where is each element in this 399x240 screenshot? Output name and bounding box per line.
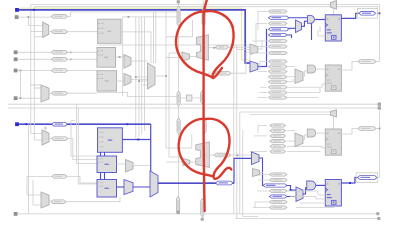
wire label L12 out <box>66 197 120 202</box>
wire port P3 run <box>18 51 98 53</box>
wire tall mux M5 out <box>155 75 166 77</box>
wire mux M22 out blue <box>303 188 307 194</box>
net label L7 <box>216 45 229 49</box>
wire blue riser x150 <box>150 124 152 171</box>
wire AND G4 out blue <box>316 184 326 186</box>
net label L10 <box>52 137 68 141</box>
RAM block B5 (highlighted) <box>97 156 117 173</box>
junction L13 out <box>237 154 239 156</box>
wire bottom bus 2 <box>235 218 377 220</box>
wire row2 to AND blue <box>289 17 308 19</box>
net label L14 (highlighted) <box>216 181 234 185</box>
net label stack2 row3 <box>269 70 288 73</box>
net label stack1 row4 <box>269 28 290 31</box>
wire below-B1 wrap <box>98 17 250 96</box>
junction B2 out <box>119 56 121 58</box>
wire label L13 out <box>231 154 252 156</box>
net square S2 <box>201 218 204 221</box>
net label stack2 row2 <box>269 65 288 68</box>
wire block B6 out blue <box>117 186 125 188</box>
wire blue net bottom label <box>204 182 235 184</box>
AND gate G3 <box>307 129 315 137</box>
wire blue net bottom-left <box>19 123 151 125</box>
wire O2 to margin <box>376 61 379 63</box>
mux M20 (highlighted) <box>252 152 260 165</box>
wire vmux M12 out <box>333 117 335 129</box>
wire stack3 left stubs <box>250 126 267 152</box>
junction branch 2 <box>138 80 140 82</box>
wire vmux M10 out <box>333 9 335 15</box>
bus end square 3 <box>376 212 379 215</box>
net label stack3 row3 <box>270 134 286 137</box>
wire B4-B5 connectors blue <box>101 152 105 156</box>
wire x76 vertical <box>76 104 97 163</box>
tall mux M5 <box>148 63 156 89</box>
net label L11 <box>52 175 67 179</box>
junction blue bl 1 <box>25 123 27 125</box>
wire label L10 out <box>68 139 97 160</box>
wire B3 bottom wrap <box>97 92 177 96</box>
net label L13 <box>214 153 231 157</box>
vertical mux M10 <box>331 1 337 10</box>
wire mux M7 out <box>258 40 262 49</box>
wire U2 top input <box>166 134 192 148</box>
input port P2 <box>15 15 19 19</box>
wire O1 to margin <box>376 12 380 14</box>
wire AND G2 out <box>316 68 325 70</box>
wire x78 vertical <box>78 108 97 184</box>
net label stack1 row2 <box>269 16 290 19</box>
wire poly U2 out <box>209 154 214 156</box>
net label stack2 row7 <box>269 91 288 94</box>
red annotation vertical stroke <box>204 0 207 211</box>
wire mux M2 out <box>49 92 52 94</box>
mux U2 (notched) <box>196 142 210 168</box>
mux M14 <box>42 130 49 145</box>
wire AND G3 out <box>316 132 325 134</box>
wire blue riser x234 <box>234 158 252 183</box>
input port P4 <box>14 57 18 61</box>
selection box around O1 <box>358 9 378 19</box>
junction port P5 <box>20 70 22 72</box>
AND gate G1 <box>308 16 315 24</box>
output label O1 <box>359 11 376 15</box>
wire label L7 out <box>229 46 251 48</box>
AND gate G4 <box>307 181 316 190</box>
net label stack3 row6 <box>270 150 286 153</box>
RAM block B3 <box>97 71 117 91</box>
mux M7 <box>250 44 258 55</box>
net label L5 <box>52 69 68 73</box>
wire poly U1 out <box>208 46 215 48</box>
flip-flop FF4 <box>325 180 341 207</box>
junction row3 mux <box>290 189 292 191</box>
output label O4 <box>358 176 378 180</box>
net label stack4 row1 <box>270 173 288 176</box>
junction branch 1 <box>135 76 137 78</box>
wire mux M2 inputs <box>31 85 41 88</box>
wire bottom bus 1 <box>18 213 377 215</box>
wire mux M13 out <box>303 135 307 140</box>
vertical net label V4 <box>201 91 204 104</box>
wire top bus A <box>31 5 380 62</box>
wire M6 inputs <box>166 53 182 58</box>
net label L12 <box>51 200 66 204</box>
wire FF3 out <box>341 129 358 135</box>
flip-flop FF3 <box>325 129 341 155</box>
wire label L2 out <box>67 31 97 33</box>
net label L8 <box>215 71 231 75</box>
wire small box SB1 stubs <box>180 97 201 99</box>
wire x71 vertical <box>71 121 97 156</box>
pin number mark 1 <box>70 51 71 53</box>
RAM block B2 <box>97 48 116 68</box>
junction blue net bottom <box>219 182 221 184</box>
junction O1 margin <box>378 12 380 14</box>
wire label L1 out <box>67 12 178 17</box>
wire mux M8 out blue <box>258 29 267 66</box>
wire label L11 run <box>27 176 97 183</box>
wire mid verticals <box>234 25 258 219</box>
wire B5-B6 connectors blue <box>101 173 105 180</box>
vertical net label V3 <box>177 91 180 106</box>
bus end square 4 <box>377 217 380 220</box>
wire FF2 out <box>341 62 358 71</box>
net label stack2 row8 <box>269 96 288 99</box>
net label stack4 row4 <box>270 189 288 192</box>
wire tall mux M18 out blue <box>158 182 234 184</box>
wire mux M20 out blue <box>259 158 263 186</box>
net label L9 (highlighted) <box>52 122 68 126</box>
small mux M19 <box>183 159 190 166</box>
wire mux M1 input low <box>34 36 42 38</box>
wire x169 vertical <box>168 53 170 157</box>
yellow highlighted net <box>19 8 250 60</box>
pin number mark 2 <box>70 58 71 60</box>
wire blue net top <box>19 10 250 63</box>
wire cross verticals left-center <box>136 17 145 140</box>
input port P3 <box>14 50 18 54</box>
input port blue top <box>15 8 19 12</box>
wire port P6 run <box>18 97 42 99</box>
mux M13 <box>295 133 303 147</box>
wire left verts into bottom <box>28 85 34 214</box>
net label stack2 row5 <box>269 80 288 83</box>
wire mux M15 inputs <box>27 195 41 205</box>
wire center vertical x203 <box>202 0 204 218</box>
wire x20 vertical <box>19 71 21 99</box>
wire mux M21 stub <box>260 172 264 174</box>
flip-flop FF1 <box>325 15 341 41</box>
net label L4 <box>52 57 68 61</box>
junction on blue net <box>33 9 35 11</box>
net label stack4 row3 <box>263 184 287 187</box>
wire AND G1 out blue <box>315 19 325 21</box>
wire x166 vertical <box>165 12 167 148</box>
small mux M6 <box>182 52 190 61</box>
junction mux M7 input <box>232 44 234 46</box>
RAM block B1 <box>98 19 121 43</box>
vertical net label V7 <box>177 197 180 215</box>
red annotation bottom loop <box>179 119 232 179</box>
junction port P6 <box>20 97 22 99</box>
net label stack1 row7 <box>269 45 288 48</box>
input port blue B <box>15 122 19 126</box>
junction M5 out <box>165 75 167 77</box>
wire O3 to margin <box>376 128 380 130</box>
wire mux M3 out <box>131 60 148 62</box>
wire mux M1 out <box>49 31 52 33</box>
net label stack2 row4 <box>269 75 288 78</box>
junction FF4 out <box>349 182 351 184</box>
wire FF1 lower wraps <box>287 26 325 36</box>
mux M9 (highlighted) <box>296 20 302 33</box>
wire left vertical x34 <box>34 7 41 88</box>
mux M17 (highlighted) <box>124 180 133 195</box>
net label stack1 row8 <box>269 51 288 54</box>
wire mid bus 1 <box>8 103 378 105</box>
junction O3 margin <box>379 128 381 130</box>
small box SB1 <box>187 95 192 101</box>
bus square x178 top <box>177 0 180 3</box>
wire vmux M12 inputs <box>240 112 331 115</box>
mux M21 <box>253 169 260 177</box>
wire block B3 out <box>117 80 125 82</box>
net label stack2 row6 <box>269 86 288 89</box>
wire stack2 left stubs <box>258 62 267 98</box>
wire block B1 out <box>121 32 151 63</box>
wire second top run <box>123 16 179 18</box>
wire O4 to margin <box>377 177 380 179</box>
wire label L8 run <box>208 52 250 73</box>
bus end square 1 <box>378 103 381 106</box>
wire B4 out blue <box>122 139 150 141</box>
net label L1 <box>51 15 67 19</box>
wire left verts lower <box>27 176 33 205</box>
wire stack4 left stubs <box>253 175 269 209</box>
junction blue bl 2 <box>126 123 128 125</box>
junction U1 out <box>213 47 215 49</box>
wire FF1 out blue <box>341 13 359 18</box>
wire mux M16 out <box>133 165 150 167</box>
net label stack4 row6 <box>270 200 288 203</box>
mux M8 (highlighted) <box>250 61 258 72</box>
wire mux M17 out blue <box>133 186 150 188</box>
vertical net label V2 <box>202 8 205 26</box>
net label stack4 row5 <box>270 195 288 198</box>
RAM block B6 (highlighted) <box>97 180 117 198</box>
wire mux M14 out <box>49 138 52 140</box>
output label O2 <box>358 60 376 64</box>
wire mux M9 in blue <box>288 27 296 29</box>
bus end square 2 <box>378 106 381 109</box>
wire mux M14 inputs <box>31 134 42 141</box>
selection box around O4 <box>356 173 378 183</box>
net label stack1 row5 <box>269 33 288 36</box>
mux U1 (notched) <box>197 35 209 61</box>
wire block B2 out <box>116 56 125 58</box>
wire center vertical x178 <box>178 3 180 211</box>
vertical mux M12 <box>331 110 337 117</box>
net label stack3 row5 <box>270 145 286 148</box>
wire block B5 out <box>117 163 126 165</box>
wire mux M4 out <box>131 79 148 81</box>
input port P6 <box>14 96 18 100</box>
wire mux M11 out <box>303 71 307 76</box>
net label stack1 row6 <box>269 39 288 42</box>
flip-flop FF2 <box>325 65 341 91</box>
wire stack3 right stubs <box>287 131 325 152</box>
mux M2 <box>41 85 49 102</box>
wire mux M6 out <box>190 56 197 58</box>
mux M3 <box>124 55 131 69</box>
wire mux M7 inputs <box>237 49 250 51</box>
wire right margin vertical low <box>379 111 381 178</box>
wire tallmux feed verticals <box>154 12 156 63</box>
mux M1 <box>43 22 49 37</box>
wire up-arrow stub <box>44 127 47 132</box>
wire U1 top input <box>166 20 193 37</box>
net label L6 <box>52 91 68 95</box>
wire mid bus 2 <box>8 107 378 109</box>
net label stack3 row2 <box>270 129 286 132</box>
wire row5 stub blue <box>287 35 292 38</box>
net label stack1 row3 <box>269 22 288 25</box>
net label stack1 row1 <box>269 10 288 13</box>
junction second top run <box>128 16 130 18</box>
vertical net label V5 <box>177 118 180 134</box>
junction B4 out <box>137 139 139 141</box>
vertical net label V1 <box>177 6 180 26</box>
wire port P2 run <box>19 16 52 18</box>
wire mux M9 out blue <box>302 21 308 26</box>
wire row3 to mux blue <box>287 186 296 191</box>
wire stack2 right stubs <box>287 67 325 98</box>
output label O3 <box>358 127 376 131</box>
RAM block B4 (highlighted) <box>98 128 123 153</box>
net square S1 <box>176 211 179 214</box>
net label L3 <box>52 50 68 54</box>
mux M4 <box>124 74 131 86</box>
red annotation top loop <box>176 11 234 78</box>
wire row5 to mux blue <box>287 196 296 198</box>
AND gate G2 <box>307 65 315 73</box>
net label L2 <box>51 30 67 34</box>
net label stack2 row1 <box>269 60 288 63</box>
net label stack3 row4 <box>270 139 286 142</box>
junction port P2 <box>28 16 30 18</box>
wire mux M1 input branch <box>31 30 43 32</box>
wire AND drop blue <box>311 23 313 40</box>
wire top bus B <box>34 7 377 9</box>
net label stack3 row1 <box>270 124 286 127</box>
wire M19 inputs <box>166 157 183 162</box>
wire FF4 lower wraps <box>287 191 334 208</box>
vertical net label V6 <box>203 120 206 134</box>
wire branch to tall mux <box>136 77 148 85</box>
wire mux M19 out <box>190 161 196 163</box>
wire port P4 run <box>18 58 98 60</box>
net label stack4 row7 <box>270 206 288 209</box>
wire left vertical x28 <box>28 17 42 25</box>
wire mux M15 out <box>49 199 51 201</box>
mux M16 <box>126 160 134 173</box>
input port P8 <box>14 212 18 216</box>
tall mux M18 (highlighted) <box>150 171 158 197</box>
input port P5 <box>14 69 18 73</box>
mux M15 <box>41 192 49 208</box>
wire FF4 out blue <box>341 178 357 184</box>
vertical net label V8 <box>201 199 204 217</box>
mux M22 (highlighted) <box>296 187 303 201</box>
mux M11 <box>295 69 303 84</box>
wire stack1 left stubs <box>250 12 267 61</box>
wire left vertical x30 <box>31 5 41 85</box>
wire port P5 run <box>18 70 98 72</box>
wire label L6 out <box>67 92 97 94</box>
net label stack4 row2 <box>270 178 288 181</box>
